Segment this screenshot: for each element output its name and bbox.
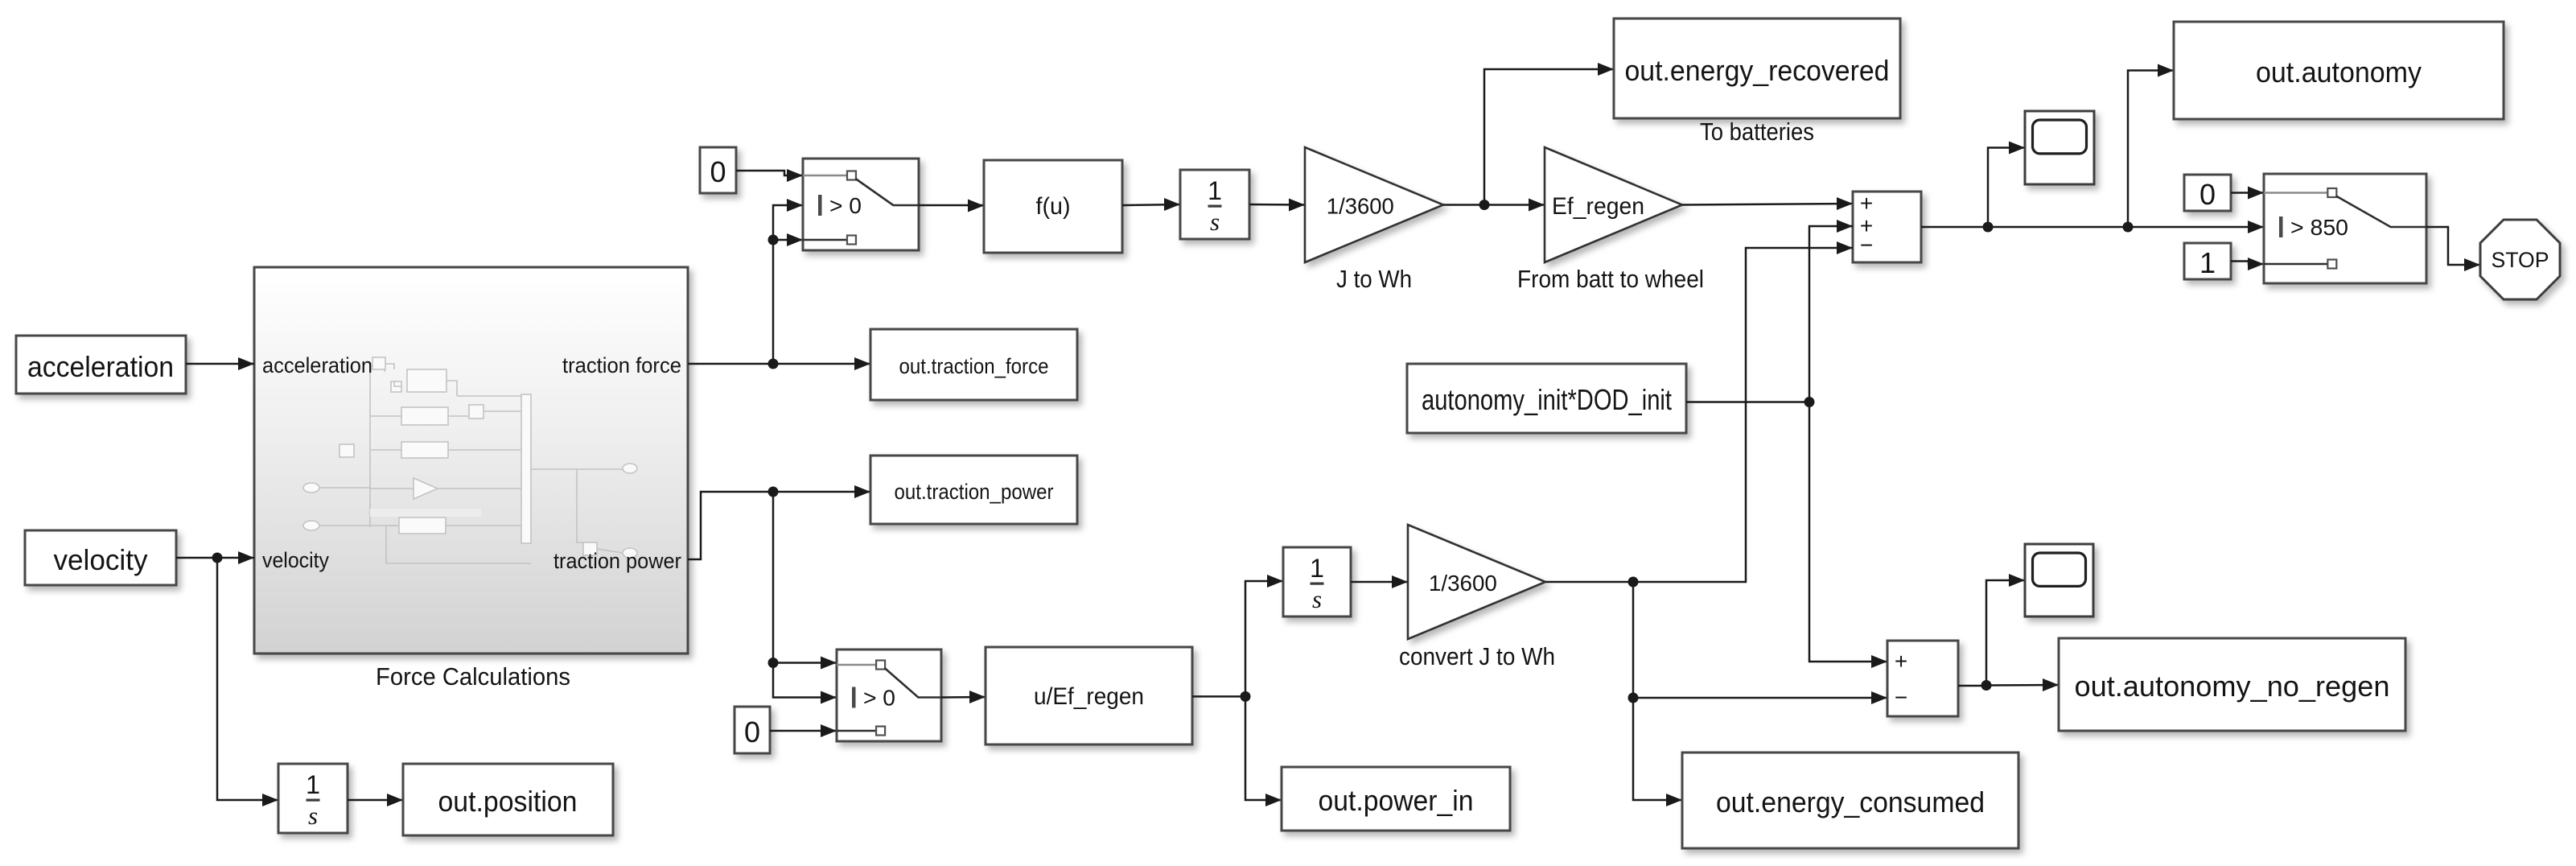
wire velocity branch down to integrator <box>217 558 278 800</box>
wire switch3 to u/Ef_regen <box>941 696 986 699</box>
subsystem inner faint diagram <box>303 357 637 563</box>
svg-text:0: 0 <box>2199 178 2216 211</box>
gain block Ef_regen From batt to wheel <box>1545 147 1682 262</box>
switch block Switch (right) | > 850 <box>2264 174 2426 283</box>
wire branch up to out.energy_recovered <box>1484 69 1614 205</box>
wire constant 0 to switch input 1 <box>736 171 803 175</box>
wire vertical from gain2 junction down to out.energy_consumed <box>1633 582 1682 800</box>
svg-text:STOP: STOP <box>2492 248 2549 272</box>
wire branch up to sum1 input 2 <box>1809 226 1853 402</box>
wire autonomy_init output with branches <box>1686 401 1809 403</box>
wire traction power from subsystem to out.traction_power <box>688 492 870 559</box>
input block: velocity <box>25 530 176 585</box>
switch internal: selector diagonal <box>885 668 941 698</box>
wire acceleration to subsystem <box>186 363 254 365</box>
svg-text:out.power_in: out.power_in <box>1319 784 1474 817</box>
Fcn block f(u) <box>984 160 1122 253</box>
svg-text:out.traction_force: out.traction_force <box>899 354 1049 378</box>
wire branch to lower switch input 1 <box>773 662 837 664</box>
wire constant 0 to lower switch input 3 <box>770 730 837 732</box>
wire gain2 output right and up to sum1 minus <box>1545 248 1853 582</box>
svg-text:f(u): f(u) <box>1036 193 1071 220</box>
svg-text:Force Calculations: Force Calculations <box>376 662 570 691</box>
wire branch to sum2 minus input <box>1633 697 1887 699</box>
svg-text:Ef_regen: Ef_regen <box>1552 193 1644 220</box>
integrator 1/s (lower) <box>1283 547 1351 617</box>
wire u/Ef_regen output junction <box>1192 695 1245 698</box>
integrator 1/s (upper) <box>1180 170 1249 239</box>
switch internal: input3 line and terminal <box>803 239 846 241</box>
svg-text:+: + <box>1860 191 1873 216</box>
svg-text:−: − <box>1860 233 1873 258</box>
switch criteria label > 0 <box>818 195 822 216</box>
svg-text:out.position: out.position <box>438 785 578 818</box>
svg-text:+: + <box>1895 649 1907 674</box>
switch internal: input3 line and terminal <box>2264 263 2327 266</box>
svg-text:0: 0 <box>710 155 726 188</box>
svg-text:autonomy_init*DOD_init: autonomy_init*DOD_init <box>1422 383 1672 416</box>
wire integrator to gain convert J to Wh <box>1351 581 1408 584</box>
svg-text:out.energy_consumed: out.energy_consumed <box>1716 786 1985 819</box>
gain block 1/3600 convert J to Wh <box>1408 525 1545 639</box>
svg-text:acceleration: acceleration <box>262 353 372 377</box>
constant block 0 (right) <box>2184 175 2231 211</box>
svg-text:out.autonomy: out.autonomy <box>2256 56 2422 89</box>
wire switch2 to STOP <box>2426 227 2480 265</box>
switch internal: input1 line and terminal <box>2264 192 2327 194</box>
svg-text:From batt to wheel: From batt to wheel <box>1517 265 1704 293</box>
switch criteria label > 850 <box>2279 216 2283 237</box>
wire velocity to subsystem with branch to integrator <box>176 557 254 559</box>
svg-text:1/3600: 1/3600 <box>1429 571 1497 596</box>
outport block: out.autonomy <box>2174 22 2504 119</box>
svg-text:1: 1 <box>2199 246 2216 279</box>
svg-text:1: 1 <box>1208 176 1222 205</box>
constant block 0 (lower) <box>735 707 770 753</box>
wire sum output to switch control (main) <box>1921 226 2264 229</box>
wire constant 1 to switch2 input 3 <box>2231 262 2264 265</box>
switch internal: input1 line and terminal <box>803 175 846 177</box>
svg-text:s: s <box>1210 208 1220 236</box>
svg-text:s: s <box>1312 585 1322 613</box>
wire Ef_regen to sum <box>1682 204 1853 205</box>
switch block Switch (lower) | > 0 <box>837 649 941 741</box>
svg-text:1/3600: 1/3600 <box>1327 194 1394 219</box>
svg-text:out.autonomy_no_regen: out.autonomy_no_regen <box>2075 670 2390 703</box>
svg-text:out.energy_recovered: out.energy_recovered <box>1625 54 1890 87</box>
sum block (upper) + + - <box>1853 192 1921 262</box>
switch criteria label > 0 <box>852 687 856 708</box>
svg-text:velocity: velocity <box>54 543 148 576</box>
switch block Switch (upper) | > 0 <box>803 159 919 250</box>
wire traction power branch down to lower switch <box>773 492 837 698</box>
wire f(u) to integrator <box>1122 204 1180 205</box>
svg-text:−: − <box>1895 685 1907 710</box>
svg-text:traction force: traction force <box>562 353 681 377</box>
switch internal: input3 line and terminal <box>837 730 876 732</box>
svg-text:> 0: > 0 <box>829 193 862 218</box>
scope block scope 2 <box>2025 544 2093 617</box>
svg-text:out.traction_power: out.traction_power <box>895 480 1054 504</box>
svg-text:To batteries: To batteries <box>1700 118 1814 146</box>
gain block 1/3600 J to Wh <box>1305 147 1443 262</box>
switch internal: selector diagonal <box>855 179 919 205</box>
wire branch up to lower integrator <box>1245 581 1283 696</box>
scope block scope 1 <box>2025 111 2094 184</box>
wire branch to switch input 3 <box>773 239 803 241</box>
STOP block octagon <box>2480 220 2560 299</box>
input block: acceleration <box>16 336 186 394</box>
svg-text:1: 1 <box>1310 554 1324 583</box>
wire sum2 output with branch to scope2 and out.autonomy_no_regen <box>1958 685 1986 687</box>
wire branch up to scope2 <box>1986 580 2025 686</box>
wire branch down to out.power_in <box>1245 696 1282 800</box>
wire branch up to scope1 <box>1988 148 2025 228</box>
svg-text:velocity: velocity <box>262 548 329 572</box>
svg-text:> 850: > 850 <box>2290 215 2348 240</box>
outport block: out.power_in <box>1282 767 1510 831</box>
wire switch to f(u) <box>919 204 984 207</box>
constant block 0 (upper) <box>700 147 736 193</box>
wire traction force from subsystem to out.traction_force <box>688 363 870 365</box>
expression block autonomy_init*DOD_init <box>1407 364 1686 433</box>
svg-text:acceleration: acceleration <box>27 350 174 383</box>
wire constant 0 to switch2 input 1 <box>2231 192 2264 194</box>
wire gain to Ef_regen with branch up to out.energy_recovered <box>1443 204 1545 206</box>
outport block: out.position <box>403 764 613 835</box>
subsystem Force Calculations <box>254 267 688 654</box>
integrator 1/s (position) <box>278 764 348 833</box>
svg-text:traction power: traction power <box>553 549 681 573</box>
wire traction force branch up to switch inputs <box>773 205 803 364</box>
Fcn block u/Ef_regen <box>986 647 1192 744</box>
svg-text:0: 0 <box>744 715 760 748</box>
wire integrator to out.position <box>348 799 403 802</box>
outport block: out.energy_recovered <box>1614 19 1900 118</box>
sum block (lower) + - <box>1887 641 1958 716</box>
wire integrator to gain 1/3600 <box>1249 204 1305 206</box>
wire branch down to sum2 + input <box>1809 402 1887 662</box>
outport block: out.energy_consumed <box>1682 753 2018 848</box>
switch internal: selector diagonal <box>2336 196 2426 228</box>
wire branch up to out.autonomy <box>2128 71 2174 228</box>
outport block: out.traction_force <box>870 329 1077 400</box>
svg-text:> 0: > 0 <box>863 686 895 711</box>
outport block: out.autonomy_no_regen <box>2059 638 2405 731</box>
svg-text:u/Ef_regen: u/Ef_regen <box>1034 683 1144 710</box>
svg-text:convert J to Wh: convert J to Wh <box>1399 642 1555 670</box>
outport block: out.traction_power <box>870 456 1077 524</box>
svg-text:J to Wh: J to Wh <box>1336 265 1412 293</box>
constant block 1 (right) <box>2184 243 2231 279</box>
wire to out.autonomy_no_regen <box>1986 684 2059 687</box>
svg-text:1: 1 <box>306 770 320 799</box>
svg-text:s: s <box>308 802 318 830</box>
switch internal: input1 line and terminal <box>837 664 876 666</box>
